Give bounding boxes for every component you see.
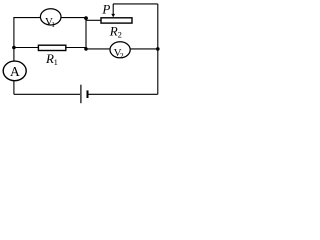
ammeter A (3, 61, 26, 81)
svg-text:1: 1 (51, 20, 55, 29)
wire top horizontal (14, 17, 86, 19)
rheostat wiper arrow P (112, 4, 114, 15)
svg-text:A: A (10, 64, 20, 79)
wire wiper feed top (113, 3, 158, 5)
battery cell: short negative plate (87, 90, 89, 98)
wire V2 row (86, 48, 158, 50)
wire bottom right (88, 93, 158, 95)
voltmeter V1 (40, 9, 61, 25)
node J2 (84, 47, 88, 51)
node J4 (156, 47, 160, 51)
wire J1-J2 vertical (85, 17, 87, 49)
node J3 (12, 46, 16, 50)
svg-text:1: 1 (54, 57, 58, 67)
wire J1 to rheostat (86, 19, 102, 21)
battery cell: long positive plate (80, 85, 82, 104)
svg-text:R: R (109, 24, 118, 39)
wire right vertical (157, 4, 159, 94)
wire middle horizontal (R1 row) (14, 47, 86, 49)
svg-text:P: P (101, 2, 110, 17)
voltmeter V2 (110, 42, 130, 58)
resistor R1 (38, 45, 65, 50)
wire bottom left (14, 93, 80, 95)
wire left vertical (13, 17, 15, 94)
node J1 (84, 16, 88, 20)
rheostat R2 body (101, 18, 132, 23)
svg-text:2: 2 (118, 30, 122, 40)
svg-text:2: 2 (120, 51, 124, 60)
